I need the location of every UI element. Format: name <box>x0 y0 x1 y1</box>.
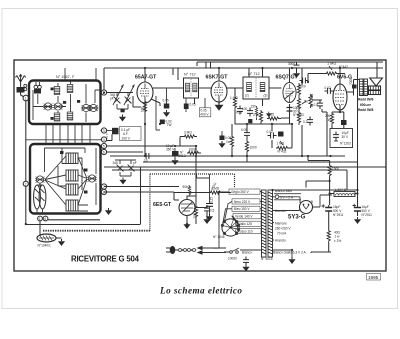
svg-text:N°2911: N°2911 <box>362 213 373 217</box>
cap 0.05 w ground (det) <box>218 131 225 148</box>
tuning gang section B <box>39 185 46 209</box>
resistor 0.08 1W <box>225 135 234 149</box>
wire right rail down <box>358 62 378 204</box>
node 8 <box>101 189 106 194</box>
wire <box>156 96 160 130</box>
svg-text:1: 1 <box>25 97 27 101</box>
svg-text:30 V: 30 V <box>342 135 349 139</box>
tube 6E5-GT <box>179 196 195 220</box>
node 3 <box>101 128 106 133</box>
cap (6E5 grid) <box>204 205 214 214</box>
speaker <box>369 78 383 95</box>
coil L2 <box>54 87 60 95</box>
wires selector to cord <box>210 174 230 252</box>
wire 1500 riser <box>308 156 330 165</box>
ground (osc pad) <box>105 208 112 215</box>
trimmer C5 345pF (osc) <box>128 161 137 172</box>
svg-text:1 MΩ: 1 MΩ <box>277 142 285 146</box>
svg-text:0,5: 0,5 <box>210 209 215 213</box>
svg-text:5: 5 <box>103 145 105 149</box>
svg-text:6: 6 <box>44 217 46 221</box>
primary label Bleu 150 V <box>232 206 260 211</box>
wire bus 4 <box>112 170 347 190</box>
svg-text:10: 10 <box>144 159 148 163</box>
tube 6SA7-GT <box>137 82 153 103</box>
switch (mains) <box>224 248 239 253</box>
ground (lamp) <box>58 239 65 246</box>
extra interbox verticals <box>46 124 90 144</box>
svg-text:3: 3 <box>103 129 105 133</box>
svg-text:N° 5015: N° 5015 <box>261 257 273 261</box>
ground (6E5 cap) <box>203 217 210 224</box>
cap black (cathode bypass) <box>341 120 347 125</box>
pot 1M N432 <box>276 141 290 154</box>
svg-text:1500: 1500 <box>332 167 339 171</box>
svg-text:70 mA: 70 mA <box>277 232 287 236</box>
svg-text:0.05: 0.05 <box>241 128 247 132</box>
cap 5000 <box>299 78 309 89</box>
wire B+ bus <box>110 155 345 157</box>
svg-text:1 MΩ: 1 MΩ <box>327 62 336 66</box>
coil L9 <box>66 200 78 211</box>
primary label Grigio 260 V <box>229 189 260 194</box>
switch S1c <box>81 104 91 111</box>
tube 6SQ7-GT <box>283 83 296 103</box>
wire OT secondary <box>359 88 368 96</box>
svg-text:4: 4 <box>103 138 105 142</box>
cap 0.05 400V boxed <box>199 98 211 117</box>
wire 6SA7 cathode down <box>133 96 160 156</box>
coil L1 <box>34 85 38 89</box>
switch S2a <box>35 176 45 183</box>
wire from node1b down to lamp <box>37 183 100 237</box>
wire bus 5 <box>197 174 210 178</box>
svg-text:0.05: 0.05 <box>236 111 242 115</box>
wires secondary to 5Y3 <box>273 190 358 240</box>
svg-text:7000: 7000 <box>349 78 353 85</box>
cord arrows <box>197 246 227 255</box>
wire AVC bus <box>107 134 196 152</box>
wire 3Mohm <box>180 137 197 147</box>
svg-text:100: 100 <box>141 106 145 112</box>
resistor 200 (6E5) <box>193 205 198 219</box>
switch S1a <box>43 103 53 110</box>
wire 6E5 cathode <box>187 196 196 224</box>
svg-text:Radd 5W8: Radd 5W8 <box>358 108 374 112</box>
dashed shield drop <box>234 174 236 188</box>
electrolytic 10uF 350V N2612 <box>166 144 186 158</box>
ground (trimmer) <box>119 115 126 122</box>
tuning gang section A <box>34 185 41 209</box>
wire left rail to bottom bus <box>26 186 141 224</box>
svg-text:Arancio: Arancio <box>275 239 286 243</box>
svg-text:0.05: 0.05 <box>190 103 196 107</box>
cap 0.05 (6SK7) <box>236 106 243 115</box>
switch S1b <box>53 103 63 110</box>
antenna <box>16 75 26 88</box>
wires in box2 <box>45 148 97 211</box>
pot 1M N442 <box>325 62 348 76</box>
schematic frame <box>14 60 386 271</box>
resistor 0.25 <box>267 113 281 121</box>
cap (AVC) black <box>248 119 252 123</box>
wire 0.5/50 junctions <box>302 68 327 156</box>
svg-text:6E5-GT: 6E5-GT <box>153 202 172 208</box>
tube 5Y3-G <box>300 200 314 214</box>
cap black (det) <box>278 132 284 137</box>
electrolytic 16uF 500V N2911 b <box>353 204 373 217</box>
cap dots box2 right <box>60 151 88 194</box>
node 1b (box2 bottom terminal) <box>38 216 43 221</box>
voltage selector N1045 <box>221 219 239 236</box>
coil box 2 (oscillator coils) <box>30 144 101 214</box>
stub wires from box1 to nodes <box>100 93 103 153</box>
dotted mechanical link (gang to box) <box>43 230 150 232</box>
svg-text:6SK7-GT: 6SK7-GT <box>206 75 229 81</box>
svg-text:Arancio: Arancio <box>275 209 286 213</box>
svg-text:150: 150 <box>251 105 257 109</box>
svg-text:350 V: 350 V <box>166 148 175 152</box>
svg-text:200: 200 <box>193 213 197 219</box>
wire IF1 top feed <box>173 68 178 80</box>
primary label Nero 220 V <box>232 199 260 204</box>
electrolytic 16uF 500V N2911 a <box>322 204 344 217</box>
svg-text:Grigio 260 V: Grigio 260 V <box>231 190 250 194</box>
trimmer C2 345pF <box>125 97 132 104</box>
cap 0.2 <box>303 117 313 126</box>
ground (6SK7 cathode) <box>215 102 224 111</box>
coil L3 <box>54 113 60 121</box>
diode arrow inside 6SQ7 <box>285 91 295 99</box>
cap 0.5 <box>314 100 324 109</box>
svg-text:Bianco Giallo 6,3 V 2 A: Bianco Giallo 6,3 V 2 A <box>273 251 306 255</box>
choke L 307ohm <box>334 188 355 197</box>
coil L8 <box>66 184 78 195</box>
output transformer core <box>359 79 367 96</box>
svg-text:1 w: 1 w <box>335 235 341 239</box>
wire 6SK7 plate to IF2 <box>227 87 243 89</box>
wire lamp to ground <box>56 237 62 239</box>
svg-text:260+260 V: 260+260 V <box>275 227 291 231</box>
wire 6V6 plate to OT <box>347 80 359 96</box>
svg-text:Marrone: Marrone <box>275 222 287 226</box>
wires in box1 <box>33 81 100 122</box>
ground (osc trimmer) <box>119 178 126 185</box>
svg-text:2: 2 <box>25 182 27 186</box>
transformer primary winding <box>262 190 267 257</box>
svg-text:400 V: 400 V <box>200 113 209 117</box>
wire 6E5 top <box>187 146 196 200</box>
wire 6SQ7 top <box>289 68 291 82</box>
resistor 150 (6SQ7 cath) <box>251 105 258 121</box>
cap 0.1uF AF 100V <box>107 127 141 141</box>
twisted cord <box>178 249 196 252</box>
cap 10 <box>143 153 152 163</box>
resistor 400 1W 2% <box>327 229 341 243</box>
wire 2Mohm run <box>174 192 231 194</box>
svg-text:2612: 2612 <box>179 154 186 158</box>
tube 6V6-G <box>333 84 347 110</box>
resistor 100 (cathode) <box>141 100 147 114</box>
coil L6 <box>66 153 78 164</box>
wire resistor <box>328 217 330 252</box>
wire node2 to trimmer rail <box>107 92 112 94</box>
svg-text:1000: 1000 <box>250 146 257 150</box>
trimmer C1 345pF <box>110 93 121 104</box>
svg-text:600ωre: 600ωre <box>360 103 371 107</box>
coil L7 <box>66 170 78 181</box>
svg-text:50: 50 <box>305 100 309 104</box>
volume pot (vertical) <box>297 83 306 125</box>
wire drop x140 <box>140 167 142 224</box>
svg-text:0.05: 0.05 <box>163 99 169 103</box>
svg-text:Verde 140 V: Verde 140 V <box>235 215 253 219</box>
svg-text:N° 1967- F: N° 1967- F <box>56 75 75 79</box>
node 2 (left terminal) <box>23 181 28 186</box>
resistor 50k (6E5 grid) <box>183 185 191 197</box>
wire IF2 to 6SQ7 <box>263 88 282 106</box>
transformer secondary winding <box>268 190 273 257</box>
cap 0.05 b <box>241 128 250 139</box>
wire antenna down left rail <box>21 93 26 182</box>
primary label Verde 140 V <box>233 214 261 219</box>
svg-text:Nero 220 V: Nero 220 V <box>234 200 251 204</box>
wire 6SK7 top <box>218 68 220 81</box>
dashed shield horizontal <box>150 173 235 175</box>
svg-text:Lo schema elettrico: Lo schema elettrico <box>159 286 242 296</box>
svg-text:N°2911: N°2911 <box>333 213 344 217</box>
IF transformer 2 <box>243 77 269 99</box>
wire top right bus <box>197 62 383 68</box>
node 1 (antenna terminal) <box>23 95 29 101</box>
cap 0.02 b <box>267 130 277 139</box>
dashed shield vertical <box>149 174 151 231</box>
dial lamp N1040/1 <box>37 234 56 242</box>
svg-text:1995: 1995 <box>368 275 379 280</box>
cap 3000 (tone) <box>288 62 300 78</box>
wire pot to 6V6 grid <box>308 74 345 83</box>
svg-text:+B: +B <box>309 200 313 204</box>
svg-text:Bleu 150 V: Bleu 150 V <box>234 207 250 211</box>
svg-text:N° 712: N° 712 <box>248 72 260 76</box>
svg-text:N°1263: N°1263 <box>340 142 351 146</box>
svg-text:5Y3-G: 5Y3-G <box>288 215 306 221</box>
resistor 50 <box>305 94 313 108</box>
svg-text:pF: pF <box>133 161 137 165</box>
svg-text:10000: 10000 <box>228 257 237 261</box>
svg-text:RICEVITORE G 504: RICEVITORE G 504 <box>71 255 140 264</box>
svg-text:2 MΩ: 2 MΩ <box>212 187 220 191</box>
wire 6SA7 plate to IF1 <box>153 87 184 89</box>
ground (line filter) <box>242 265 249 272</box>
trimmer long arrows <box>113 85 135 106</box>
resistor 1000 <box>187 148 201 155</box>
cap C3 (black) <box>121 109 125 113</box>
svg-text:1000: 1000 <box>189 148 196 152</box>
wire 6SQ7 cathode down <box>281 105 292 124</box>
wire AVC line <box>235 88 292 124</box>
cap 0.05 (6SA7 grid) <box>163 88 171 117</box>
antenna coil 3000 <box>17 84 27 92</box>
ground (line cap) <box>206 214 213 221</box>
svg-text:65A7-GT: 65A7-GT <box>135 75 157 81</box>
primary label Giallo 125 <box>236 221 261 226</box>
svg-text:N° 712: N° 712 <box>184 73 196 77</box>
svg-text:Radd 8W8: Radd 8W8 <box>358 98 374 102</box>
resistor 1M (6SK7) <box>230 96 238 110</box>
svg-text:2 MΩ: 2 MΩ <box>253 113 261 117</box>
wire bus 3 <box>104 166 386 168</box>
switch S1d <box>89 104 99 111</box>
ground (electrolytic 2612) <box>171 158 178 165</box>
wire bottom heater run <box>311 252 331 253</box>
heater bus wire <box>104 68 383 90</box>
wire IF2 feeds <box>249 68 263 77</box>
node 6 <box>101 149 106 154</box>
svg-text:1 MΩ: 1 MΩ <box>230 96 238 100</box>
svg-text:N°1040/1: N°1040/1 <box>38 244 52 248</box>
node 7 <box>101 184 106 189</box>
svg-text:8: 8 <box>103 191 105 195</box>
wire verticals mid <box>232 124 292 162</box>
wire IF1 to 6SK7 <box>195 88 212 104</box>
svg-text:(3): (3) <box>264 94 268 98</box>
svg-text:50kΩ: 50kΩ <box>183 185 191 189</box>
switch S2b <box>87 175 97 182</box>
svg-text:0.02: 0.02 <box>325 86 331 90</box>
wire 6E5 right <box>195 205 207 217</box>
svg-text:7: 7 <box>103 185 105 189</box>
cap 100pF <box>242 107 253 117</box>
cap dots box1 <box>51 88 81 120</box>
coil box 1 (antenna coils) <box>29 81 101 125</box>
svg-text:1: 1 <box>39 217 41 221</box>
tube 6SK7-GT <box>211 81 227 102</box>
wire 6V6 cathode <box>332 105 344 129</box>
wire <box>36 82 40 104</box>
resistor 2M (6SQ7 grid) <box>253 110 263 124</box>
node 6b (box2 bottom terminal) <box>43 216 48 221</box>
svg-text:0.5: 0.5 <box>314 103 319 107</box>
cap 0.05 (6SK7 cathode) <box>184 98 196 112</box>
wires trimmer osc <box>115 160 136 176</box>
wire choke junctions <box>306 161 358 205</box>
node 5 <box>101 143 106 148</box>
svg-text:Bianco: Bianco <box>242 251 252 255</box>
resistor 1000 b <box>245 140 256 154</box>
wire 6V6 top <box>339 68 341 84</box>
ground (heater ct) <box>288 257 295 264</box>
svg-text:3 MΩ: 3 MΩ <box>184 131 192 135</box>
resistor 250 1W <box>325 112 334 126</box>
ground (6E5) <box>183 222 190 229</box>
wire nodes 7/8 lines <box>104 187 179 201</box>
node 4 <box>101 137 106 142</box>
wire 6SA7 top <box>144 68 146 82</box>
resistor 2 Mohm (6E5 feed) <box>209 187 223 195</box>
wires primary taps <box>222 192 261 234</box>
resistor 1500 <box>328 164 339 178</box>
IF transformer 1 <box>184 78 199 98</box>
svg-text:6: 6 <box>103 151 105 155</box>
svg-text:0,25: 0,25 <box>210 197 214 203</box>
ground (2911 b) <box>354 217 361 224</box>
svg-text:100 V: 100 V <box>122 136 131 140</box>
svg-text:5 V = 2 A: 5 V = 2 A <box>280 195 294 199</box>
svg-text:1w: 1w <box>226 140 231 144</box>
electrolytic box 10uF 30V N1263 <box>266 112 353 148</box>
wire box1 to bus <box>65 68 96 81</box>
svg-text:pF: pF <box>110 97 114 101</box>
gang internal <box>35 183 45 214</box>
cap 0.02 7W label <box>160 120 172 128</box>
wire screen bus <box>143 161 358 163</box>
primary label Rosso 110 <box>236 228 261 233</box>
svg-text:± 2%: ± 2% <box>334 239 341 243</box>
electrolytic 10uF 30V (6SQ7 cathode) <box>287 104 304 117</box>
node 2b (top right of box1) <box>101 90 106 95</box>
cap 0.02 (coupling) <box>325 86 334 94</box>
secondary 5V 2A row <box>274 194 301 200</box>
wires heater <box>240 250 292 257</box>
wire trimmers <box>112 93 133 110</box>
svg-text:N°432: N°432 <box>278 150 287 154</box>
resistor 3 Mohm <box>183 131 197 139</box>
trimmer C4 345pF (osc) <box>113 161 124 172</box>
svg-text:(2): (2) <box>245 94 249 98</box>
svg-text:TW: TW <box>167 123 172 127</box>
cap 7000 <box>349 78 357 89</box>
svg-text:3000: 3000 <box>288 62 295 66</box>
cap (line filter) <box>243 257 249 266</box>
coil L4 <box>67 85 73 93</box>
svg-text:0.2: 0.2 <box>303 120 308 124</box>
svg-text:345: 345 <box>113 161 119 165</box>
stamp 1995 <box>367 274 381 281</box>
cap 0.25 (line) <box>206 197 214 210</box>
wire node4 cross line <box>26 139 102 141</box>
coil L5 <box>67 112 73 120</box>
svg-text:100: 100 <box>242 107 248 111</box>
plug <box>166 246 178 254</box>
